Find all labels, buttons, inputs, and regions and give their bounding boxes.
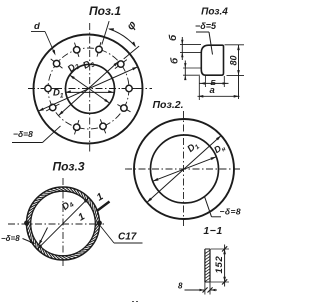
svg-text:б: б [169,57,181,64]
label D1 [53,88,64,100]
bore dimension arrows (horizontal) [65,90,114,93]
dimension б (bottom-left) [169,57,202,80]
label D2 [66,59,82,75]
Поз.2 vertical centerline [183,111,185,227]
bolt hole 7 with radial tick [46,104,59,111]
Поз.1 outer circle [34,35,143,144]
label D3 [81,57,96,73]
bolt hole 3 with radial tick [96,42,102,57]
Поз.1 bore circle [66,64,115,113]
section mark 1 (inner) [77,211,88,224]
dimension line D1 (outer diameter) [38,67,138,111]
dimension line D4 [37,198,89,250]
svg-text:8: 8 [178,282,183,291]
Поз.1 vertical centerline [89,23,91,153]
label -δ=8 (Поз.1) with leader [12,126,61,143]
svg-text:Поз.4: Поз.4 [201,7,228,18]
dimension 152 (section height) [211,245,230,287]
radial extension line (right, 40°) [124,46,139,59]
svg-text:Поз.2.: Поз.2. [153,99,184,111]
label D1 (Поз.2) [185,139,201,155]
label Поз.1 [89,4,121,18]
bolt hole 1 with radial tick [122,85,137,91]
svg-text:1−1: 1−1 [203,225,222,237]
Поз.2 inner circle [151,135,219,203]
dimension line D2 (bore diameter) [69,75,109,103]
dimension 80 (right side) [225,45,245,99]
dimension 8 (section width) [178,282,217,295]
label 1-1 [203,225,222,237]
svg-text:Поз.1: Поз.1 [89,4,121,18]
svg-text:C17: C17 [118,232,137,243]
bolt hole 8 with radial tick [74,120,80,134]
Поз.2 horizontal centerline [125,168,242,170]
label D4 [60,197,76,213]
section mark 1 (upper) [95,191,110,210]
label -δ=5 with leader [195,21,217,55]
svg-text:80: 80 [228,55,238,65]
bolt hole 10 with radial tick [117,105,130,112]
stray scan mark [132,301,139,303]
svg-text:152: 152 [214,256,225,274]
bolt hole 2 with radial tick [115,60,127,69]
material leader C17 [100,226,143,244]
Поз.3 outer circle [27,187,100,260]
Поз.4 section outline [201,45,223,75]
label d with leader [31,21,56,56]
Поз.3 horizontal centerline [8,223,104,225]
dimension б (top-left) [167,34,201,60]
label -δ=8 (Поз.3) with thickness arrows [1,228,48,246]
dimension line D3 (bolt circle diameter) [58,61,118,115]
svg-text:−δ=8: −δ=8 [220,207,241,217]
label Поз.2 [153,99,184,111]
label -δ=8 (Поз.2) with leader [205,197,241,217]
svg-text:−δ=8: −δ=8 [13,129,33,139]
dimension a (bottom) [198,76,240,100]
svg-text:−δ=8: −δ=8 [1,234,20,243]
label Dн (Поз.2) [212,141,227,157]
svg-text:Поз.3: Поз.3 [52,160,84,174]
Поз.3 vertical centerline [62,178,64,268]
svg-text:б: б [167,34,179,41]
angular dimension arc φ [108,28,136,47]
Поз.2 outer circle [134,119,234,219]
dimension line D1 (Поз.2 outer diameter) [147,136,221,203]
label Поз.3 [52,160,84,174]
bolt hole 4 with radial tick [74,43,80,57]
section cut dot left [25,221,29,225]
section 1-1 bar (hatched) [205,249,210,282]
Поз.3 inner circle [31,191,96,256]
bolt hole 9 with radial tick [100,119,106,133]
svg-text:a: a [210,85,215,96]
svg-text:d: d [34,21,40,32]
svg-text:−δ=5: −δ=5 [195,21,217,31]
Поз.1 bolt circle (dash-dot) [48,48,129,129]
label Поз.4 [201,7,228,18]
section cut dot right [97,221,101,225]
Поз.3 ring hatching [27,187,99,259]
bolt hole 5 with radial tick [51,59,63,68]
dimension Б (bottom) [199,76,229,87]
bolt hole 6 with radial tick [41,85,56,91]
Поз.1 horizontal centerline [28,88,152,90]
label φ [125,19,139,33]
dimension line Dн (Поз.2 inner diameter) [153,157,216,181]
radial extension line (left, 73°) [102,21,109,44]
